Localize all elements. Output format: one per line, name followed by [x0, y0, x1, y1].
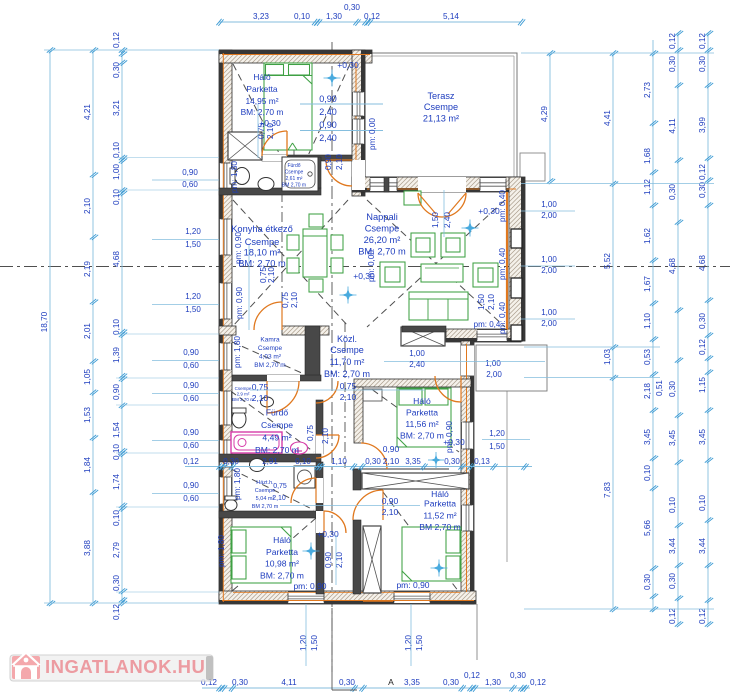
svg-text:1,12: 1,12: [643, 179, 652, 195]
svg-text:3,45: 3,45: [643, 429, 652, 445]
svg-text:3,35: 3,35: [405, 457, 421, 466]
svg-text:0,30: 0,30: [510, 671, 526, 680]
svg-text:0,10: 0,10: [112, 189, 121, 205]
svg-text:pm: 0,00: pm: 0,00: [368, 118, 377, 150]
svg-text:0,13: 0,13: [474, 457, 490, 466]
svg-text:0,90: 0,90: [183, 428, 199, 437]
svg-text:2,10: 2,10: [272, 495, 286, 502]
svg-text:1,54: 1,54: [112, 422, 121, 438]
svg-text:0,60: 0,60: [183, 441, 199, 450]
svg-text:0,12: 0,12: [698, 164, 707, 180]
svg-text:0,10: 0,10: [295, 457, 311, 466]
svg-text:0,12: 0,12: [364, 12, 380, 21]
svg-text:3,44: 3,44: [668, 538, 677, 554]
svg-text:1,50: 1,50: [310, 635, 319, 651]
svg-text:2,00: 2,00: [541, 266, 557, 275]
svg-text:0,90: 0,90: [182, 168, 198, 177]
svg-text:0,10: 0,10: [112, 142, 121, 158]
svg-text:Háló: Háló: [253, 72, 271, 82]
svg-text:pm: 0,00: pm: 0,00: [367, 250, 376, 282]
svg-text:2,91: 2,91: [262, 457, 278, 466]
svg-text:Háló: Háló: [413, 396, 431, 406]
svg-text:2,73: 2,73: [643, 82, 652, 98]
svg-text:1,84: 1,84: [83, 457, 92, 473]
svg-text:2,10: 2,10: [335, 154, 344, 170]
svg-text:1,20: 1,20: [185, 292, 201, 301]
svg-text:Csempe: Csempe: [285, 170, 304, 176]
svg-text:11,56 m²: 11,56 m²: [405, 419, 438, 429]
svg-text:0,12: 0,12: [698, 33, 707, 49]
svg-text:0,90: 0,90: [324, 552, 333, 568]
svg-text:0,30: 0,30: [698, 182, 707, 198]
svg-text:1,03: 1,03: [603, 349, 612, 365]
svg-text:1,39: 1,39: [112, 347, 121, 363]
svg-text:0,30: 0,30: [444, 457, 460, 466]
svg-text:0,51: 0,51: [655, 380, 664, 396]
svg-text:Csempe: Csempe: [235, 386, 252, 391]
svg-text:1,00: 1,00: [541, 200, 557, 209]
svg-text:2,10: 2,10: [487, 294, 496, 310]
svg-text:1,53: 1,53: [83, 407, 92, 423]
svg-text:4,11: 4,11: [281, 678, 297, 687]
svg-text:Háló: Háló: [273, 535, 291, 545]
svg-text:0,30: 0,30: [698, 313, 707, 329]
svg-text:2,9 m²: 2,9 m²: [237, 392, 250, 397]
svg-text:3,44: 3,44: [698, 538, 707, 554]
svg-text:pm: 0,40: pm: 0,40: [498, 190, 507, 222]
svg-text:0,10: 0,10: [643, 465, 652, 481]
svg-text:0,30: 0,30: [668, 184, 677, 200]
svg-text:0,12: 0,12: [112, 32, 121, 48]
svg-text:21,13 m²: 21,13 m²: [423, 114, 459, 124]
svg-text:pm: 0,90: pm: 0,90: [234, 232, 243, 264]
svg-text:0,60: 0,60: [183, 394, 199, 403]
svg-text:BM: 2,70 m: BM: 2,70 m: [400, 431, 444, 441]
svg-text:pm: 0,90: pm: 0,90: [396, 580, 429, 590]
svg-text:pm: 1,80: pm: 1,80: [233, 468, 242, 500]
svg-text:0,10: 0,10: [698, 495, 707, 511]
svg-text:1,15: 1,15: [698, 377, 707, 393]
svg-text:1,00: 1,00: [541, 255, 557, 264]
svg-text:Csempe: Csempe: [365, 224, 400, 234]
svg-text:5,14: 5,14: [443, 12, 459, 21]
svg-text:0,30: 0,30: [698, 56, 707, 72]
svg-text:pm: 0,40: pm: 0,40: [498, 302, 507, 334]
svg-text:1,10: 1,10: [643, 313, 652, 329]
svg-text:1,62: 1,62: [643, 228, 652, 244]
svg-text:1,20: 1,20: [489, 429, 505, 438]
svg-text:3,23: 3,23: [253, 12, 269, 21]
svg-text:1,74: 1,74: [112, 474, 121, 490]
svg-text:Nappali: Nappali: [366, 212, 398, 222]
svg-text:1,50: 1,50: [431, 212, 440, 228]
svg-text:2,00: 2,00: [541, 319, 557, 328]
svg-text:14,95 m²: 14,95 m²: [245, 96, 278, 106]
svg-text:4,29: 4,29: [540, 106, 549, 122]
svg-text:BM: 2,70 m: BM: 2,70 m: [238, 259, 286, 269]
svg-text:BM: 2,70 m: BM: 2,70 m: [260, 571, 304, 581]
svg-text:0,90: 0,90: [319, 120, 337, 130]
svg-text:1,05: 1,05: [83, 369, 92, 385]
svg-text:2,40: 2,40: [409, 360, 425, 369]
svg-text:Fürdő: Fürdő: [266, 408, 289, 418]
svg-text:BM 2,70 m: BM 2,70 m: [252, 504, 279, 510]
svg-text:4,68: 4,68: [698, 255, 707, 271]
svg-text:1,10: 1,10: [331, 457, 347, 466]
svg-text:BM: 2,70 m: BM: 2,70 m: [255, 445, 299, 455]
svg-text:1,30: 1,30: [485, 678, 501, 687]
svg-text:Csempe: Csempe: [261, 420, 293, 430]
svg-text:2,10: 2,10: [383, 456, 400, 466]
svg-text:Fürdő: Fürdő: [287, 163, 300, 169]
svg-text:0,75: 0,75: [340, 381, 357, 391]
svg-text:1,50: 1,50: [477, 294, 486, 310]
svg-text:Parketta: Parketta: [406, 408, 438, 418]
svg-text:+0,30: +0,30: [337, 60, 359, 70]
svg-text:2,10: 2,10: [382, 507, 399, 517]
svg-text:1,50: 1,50: [489, 442, 505, 451]
svg-text:BM 2,70 m: BM 2,70 m: [419, 522, 461, 532]
svg-text:2,10: 2,10: [321, 428, 330, 444]
svg-text:0,60: 0,60: [183, 361, 199, 370]
svg-text:1,00: 1,00: [409, 349, 425, 358]
svg-text:0,12: 0,12: [530, 678, 546, 687]
svg-text:3,45: 3,45: [698, 429, 707, 445]
svg-text:0,75: 0,75: [281, 292, 290, 308]
svg-text:2,79: 2,79: [112, 542, 121, 558]
svg-text:0,30: 0,30: [232, 678, 248, 687]
svg-text:pm: 0,90: pm: 0,90: [293, 581, 326, 591]
svg-text:0,30: 0,30: [443, 678, 459, 687]
svg-text:1,50: 1,50: [415, 635, 424, 651]
svg-text:0,12: 0,12: [698, 339, 707, 355]
svg-text:+0,30: +0,30: [478, 206, 500, 216]
svg-text:0,90: 0,90: [324, 154, 333, 170]
svg-text:BM 2,70 m: BM 2,70 m: [254, 362, 285, 369]
svg-text:1,30: 1,30: [326, 12, 342, 21]
svg-text:3,35: 3,35: [404, 678, 420, 687]
svg-text:Terasz: Terasz: [427, 91, 454, 101]
svg-text:0,30: 0,30: [365, 457, 381, 466]
svg-text:Kamra: Kamra: [260, 337, 280, 344]
svg-text:1,67: 1,67: [643, 276, 652, 292]
svg-text:0,90: 0,90: [183, 381, 199, 390]
svg-text:0,12: 0,12: [668, 608, 677, 624]
svg-text:4,68: 4,68: [668, 258, 677, 274]
svg-text:0,12: 0,12: [698, 608, 707, 624]
svg-text:4,11: 4,11: [668, 118, 677, 134]
svg-text:4,03 m²: 4,03 m²: [259, 354, 282, 361]
svg-text:1,20: 1,20: [404, 635, 413, 651]
svg-text:18,70: 18,70: [40, 311, 49, 332]
svg-text:BM: 2,70 m: BM: 2,70 m: [324, 369, 370, 379]
svg-text:3,21: 3,21: [112, 100, 121, 116]
svg-text:0,12: 0,12: [464, 671, 480, 680]
svg-text:Házt.h.: Házt.h.: [256, 480, 274, 486]
svg-text:11,70 m²: 11,70 m²: [330, 357, 365, 367]
svg-text:Csempe: Csempe: [245, 237, 280, 247]
svg-text:0,60: 0,60: [183, 494, 199, 503]
svg-text:10,98 m²: 10,98 m²: [265, 559, 299, 569]
svg-text:2,10: 2,10: [83, 198, 92, 214]
svg-text:2,01: 2,01: [83, 323, 92, 339]
svg-text:0,10: 0,10: [668, 497, 677, 513]
svg-text:1,68: 1,68: [643, 148, 652, 164]
svg-text:0,30: 0,30: [344, 3, 360, 12]
svg-text:0,30: 0,30: [668, 56, 677, 72]
svg-text:2,19: 2,19: [83, 261, 92, 277]
svg-text:0,10: 0,10: [112, 444, 121, 460]
svg-text:1,20: 1,20: [185, 227, 201, 236]
svg-text:Parketta: Parketta: [424, 499, 456, 509]
svg-text:0,10: 0,10: [294, 12, 310, 21]
svg-text:1,50: 1,50: [185, 240, 201, 249]
svg-text:0,90: 0,90: [183, 481, 199, 490]
svg-text:2,18: 2,18: [643, 383, 652, 399]
svg-text:4,49 m²: 4,49 m²: [262, 433, 291, 443]
svg-text:0,30: 0,30: [112, 575, 121, 591]
svg-text:2,10: 2,10: [290, 292, 299, 308]
svg-text:5,52: 5,52: [603, 253, 612, 269]
svg-text:0,90: 0,90: [319, 94, 337, 104]
svg-text:0,30: 0,30: [339, 678, 355, 687]
svg-text:0,30: 0,30: [223, 457, 239, 466]
svg-text:BM: 2,70 m: BM: 2,70 m: [358, 247, 406, 257]
svg-text:0,10: 0,10: [112, 319, 121, 335]
svg-text:1,00: 1,00: [112, 164, 121, 180]
svg-text:Csempe: Csempe: [424, 102, 458, 112]
svg-text:Csempe: Csempe: [255, 488, 275, 494]
svg-text:0,90: 0,90: [183, 348, 199, 357]
svg-text:0,53: 0,53: [643, 349, 652, 365]
svg-text:1,20: 1,20: [299, 635, 308, 651]
svg-text:Parketta: Parketta: [266, 547, 298, 557]
svg-text:0,30: 0,30: [112, 62, 121, 78]
svg-text:2,10: 2,10: [266, 123, 275, 139]
svg-text:1,00: 1,00: [485, 359, 501, 368]
svg-text:Parketta: Parketta: [246, 84, 278, 94]
svg-text:Háló: Háló: [431, 489, 449, 499]
svg-text:11,52 m²: 11,52 m²: [423, 511, 456, 521]
svg-text:4,21: 4,21: [83, 104, 92, 120]
svg-text:2,10: 2,10: [252, 393, 269, 403]
svg-text:2,40: 2,40: [319, 107, 337, 117]
svg-text:3,99: 3,99: [698, 117, 707, 133]
svg-text:0,30: 0,30: [668, 573, 677, 589]
svg-text:2,40: 2,40: [319, 133, 337, 143]
svg-text:3,88: 3,88: [83, 540, 92, 556]
svg-text:0,60: 0,60: [182, 180, 198, 189]
svg-text:0,12: 0,12: [183, 457, 199, 466]
svg-text:0,30: 0,30: [668, 381, 677, 397]
svg-text:0,75: 0,75: [252, 382, 269, 392]
svg-text:2,00: 2,00: [541, 211, 557, 220]
svg-text:1,50: 1,50: [185, 305, 201, 314]
svg-text:0,90: 0,90: [382, 496, 399, 506]
svg-text:0,12: 0,12: [668, 33, 677, 49]
svg-text:0,75: 0,75: [306, 425, 315, 441]
svg-text:0,90: 0,90: [383, 444, 400, 454]
svg-text:0,10: 0,10: [112, 510, 121, 526]
svg-text:2,61 m²: 2,61 m²: [286, 176, 303, 182]
svg-text:pm: 0,40: pm: 0,40: [498, 248, 507, 280]
svg-text:7,83: 7,83: [603, 482, 612, 498]
svg-text:INGATLANOK.HU: INGATLANOK.HU: [45, 656, 205, 677]
svg-text:BM 2,70 m: BM 2,70 m: [282, 183, 306, 189]
svg-text:Csempe: Csempe: [330, 345, 364, 355]
svg-text:A: A: [388, 677, 394, 687]
svg-text:pm: 0,90: pm: 0,90: [235, 287, 244, 319]
svg-text:pm: 1,80: pm: 1,80: [217, 535, 226, 567]
svg-text:pm: 1,80: pm: 1,80: [230, 161, 239, 193]
svg-text:Közl.: Közl.: [337, 334, 357, 344]
svg-text:0,75: 0,75: [273, 483, 287, 490]
svg-text:0,12: 0,12: [112, 604, 121, 620]
svg-text:0,90: 0,90: [112, 384, 121, 400]
svg-text:4,68: 4,68: [112, 251, 121, 267]
svg-text:3,45: 3,45: [668, 430, 677, 446]
svg-text:1,00: 1,00: [541, 308, 557, 317]
svg-text:2,10: 2,10: [267, 267, 276, 283]
svg-text:26,20 m²: 26,20 m²: [364, 235, 401, 245]
svg-text:5,66: 5,66: [643, 520, 652, 536]
svg-text:0,30: 0,30: [643, 574, 652, 590]
svg-text:pm: 1,80: pm: 1,80: [233, 336, 242, 368]
svg-text:pm: 0,90: pm: 0,90: [445, 421, 454, 453]
svg-text:2,10: 2,10: [340, 392, 357, 402]
svg-text:pm: 0,4: pm: 0,4: [474, 320, 501, 329]
svg-text:2,00: 2,00: [486, 370, 502, 379]
svg-text:Csempe: Csempe: [258, 345, 283, 352]
svg-text:4,41: 4,41: [603, 110, 612, 126]
svg-text:BM: 2,70 m: BM: 2,70 m: [241, 107, 284, 117]
